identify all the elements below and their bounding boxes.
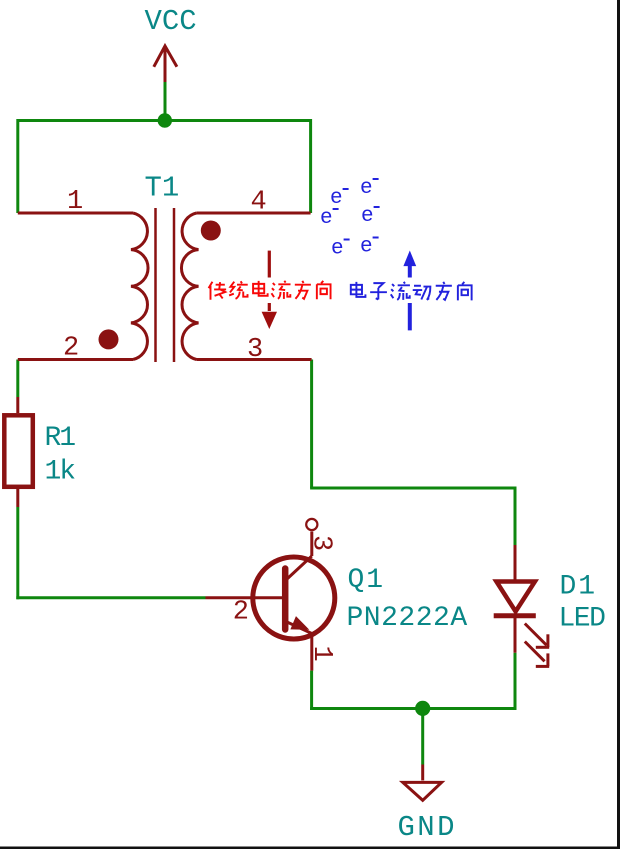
- svg-text:LED: LED: [559, 604, 606, 635]
- svg-text:e: e: [361, 205, 374, 228]
- svg-text:1: 1: [306, 646, 336, 662]
- svg-text:2: 2: [233, 598, 249, 628]
- svg-text:1k: 1k: [45, 457, 76, 488]
- svg-text:e: e: [360, 177, 373, 200]
- svg-text:R1: R1: [45, 423, 76, 454]
- svg-text:VCC: VCC: [145, 5, 197, 38]
- svg-text:2: 2: [63, 334, 79, 364]
- svg-text:D1: D1: [560, 572, 598, 603]
- svg-text:e: e: [331, 238, 344, 261]
- svg-text:PN2222A: PN2222A: [347, 603, 468, 634]
- svg-text:T1: T1: [145, 172, 180, 205]
- svg-text:e: e: [360, 236, 373, 259]
- svg-text:Q1: Q1: [348, 565, 386, 596]
- svg-text:3: 3: [247, 335, 263, 365]
- svg-text:e: e: [320, 207, 333, 230]
- svg-text:3: 3: [306, 535, 336, 551]
- svg-text:4: 4: [251, 188, 267, 218]
- svg-text:1: 1: [67, 187, 83, 217]
- svg-text:GND: GND: [398, 811, 457, 844]
